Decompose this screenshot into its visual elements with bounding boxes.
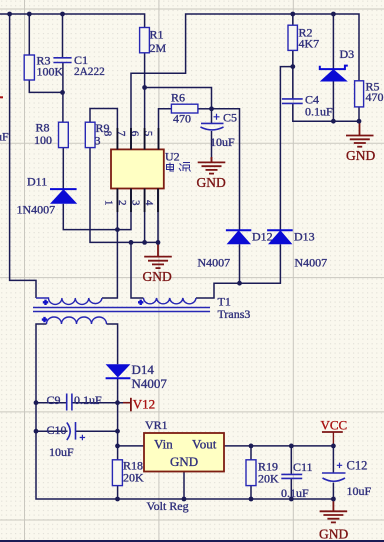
svg-text:R6: R6: [171, 91, 185, 105]
svg-text:GND: GND: [319, 527, 348, 542]
svg-text:100K: 100K: [37, 65, 64, 79]
label R2: [299, 26, 320, 51]
svg-text:D12: D12: [252, 230, 273, 244]
svg-text:10uF: 10uF: [347, 484, 372, 498]
svg-text:1: 1: [103, 200, 115, 206]
wire R19 bottom lead: [250, 486, 252, 499]
capacitor C10: [67, 422, 85, 440]
svg-text:D14: D14: [132, 362, 155, 377]
label D14: [132, 362, 168, 391]
label D12: [252, 230, 273, 244]
diode D11: [50, 189, 77, 204]
label uF fragment left edge: [0, 130, 9, 144]
svg-text:10uF: 10uF: [49, 445, 74, 459]
label VR1: [145, 418, 168, 432]
wire C12 top stem: [332, 446, 334, 473]
capacitor C1: [53, 58, 71, 63]
label U2: [165, 150, 180, 164]
wire left bus: [10, 14, 36, 298]
svg-text:1N4007: 1N4007: [17, 203, 56, 217]
label R18: [123, 459, 144, 485]
wire C9 right to V12: [72, 402, 131, 404]
svg-text:10uF: 10uF: [210, 135, 235, 149]
label R6: [171, 91, 191, 126]
capacitor C11: [281, 474, 302, 478]
capacitor C5: [201, 114, 224, 130]
resistor R18: [112, 460, 122, 486]
svg-text:Vin: Vin: [154, 437, 173, 452]
pin 3: [130, 200, 142, 206]
label T1: [218, 295, 251, 322]
svg-text:4K7: 4K7: [299, 37, 320, 51]
ic U2: [111, 149, 164, 188]
ground bottom C12: [320, 499, 348, 522]
transformer T1 primary left winding: [36, 298, 102, 305]
wire C12 bottom stem: [332, 483, 334, 500]
power port V12: [123, 397, 155, 412]
svg-text:Vout: Vout: [192, 437, 217, 452]
ground C5: [198, 157, 226, 174]
resistor R8: [59, 122, 69, 147]
svg-text:C12: C12: [347, 459, 368, 473]
svg-text:D11: D11: [27, 175, 47, 189]
wire C5 bottom stem: [211, 131, 213, 162]
wire C10 left: [36, 430, 68, 432]
wire R2 top lead: [292, 14, 294, 25]
wire R1 bottom to pin6: [144, 53, 146, 150]
wire D3 anode lead: [332, 82, 334, 122]
wire Vin: [118, 445, 144, 447]
svg-text:N4007: N4007: [132, 376, 168, 391]
wire R3 bottom to C1 node: [29, 80, 62, 92]
wire pin1 to primary winding: [102, 189, 117, 299]
wire R2 bottom to C4: [292, 50, 294, 99]
wire C11 bottom stem: [290, 478, 292, 499]
ground label bottom: [319, 527, 348, 542]
wire VR1 gnd pin: [183, 472, 185, 500]
pin 5: [142, 131, 154, 137]
wire R9 bottom to pins 3,4 gnd: [90, 148, 158, 243]
svg-text:Volt Reg: Volt Reg: [147, 499, 189, 513]
zener diode D3: [320, 66, 348, 82]
svg-text:20K: 20K: [258, 472, 279, 486]
resistor R5: [355, 81, 364, 107]
svg-text:2M: 2M: [150, 41, 167, 55]
svg-text:VR1: VR1: [145, 418, 168, 432]
pin 6: [129, 131, 141, 137]
label C11: [281, 460, 313, 500]
resistor R9: [85, 122, 95, 147]
pin 7: [115, 131, 127, 137]
wire node to D12 cathode: [212, 109, 240, 230]
label C1: [74, 53, 105, 78]
wire C11 top stem: [290, 446, 292, 475]
label 1N4007 D11: [17, 203, 56, 217]
label Volt Reg: [147, 499, 189, 513]
wire R8 to D11: [62, 148, 64, 190]
label R1: [150, 28, 167, 56]
svg-text:R1: R1: [150, 28, 164, 42]
pin 8: [101, 131, 113, 137]
wire pin6 node to R6 node: [145, 88, 212, 109]
wire R9 top to pin8: [90, 109, 117, 150]
wire pin7 to top right bus: [131, 14, 359, 149]
wire D3 cathode lead: [332, 14, 334, 69]
svg-text:C10: C10: [47, 423, 67, 437]
wire D11 anode to pins 1,2: [63, 189, 131, 230]
label D3: [340, 47, 355, 61]
label C9: [47, 393, 103, 407]
wire top bus left: [0, 14, 145, 28]
svg-text:0.1uF: 0.1uF: [74, 393, 102, 407]
svg-text:0.1uF: 0.1uF: [281, 486, 309, 500]
wire C1 top lead: [62, 14, 64, 58]
svg-text:N4007: N4007: [198, 256, 231, 270]
label R5: [366, 80, 384, 105]
svg-text:GND: GND: [170, 454, 198, 469]
wire C10 right: [76, 430, 118, 432]
wire D14 cathode down to R18: [117, 378, 119, 460]
resistor R3: [24, 55, 34, 80]
wire R19 top lead: [250, 446, 252, 460]
label D11: [27, 175, 47, 189]
pin 4: [143, 200, 155, 206]
transformer T1 core: [33, 308, 210, 312]
resistor R6: [171, 104, 198, 113]
svg-text:GND: GND: [346, 148, 375, 163]
wire pin3 lead: [144, 189, 146, 243]
capacitor C9: [67, 394, 72, 411]
diode D12: [226, 230, 251, 244]
svg-text:D13: D13: [294, 230, 315, 244]
label C12: [347, 459, 372, 499]
pin 1: [103, 200, 115, 206]
wire R18 bottom lead: [117, 486, 119, 499]
capacitor C4: [282, 99, 303, 104]
wire R3 top lead: [28, 14, 30, 55]
sheet bottom edge line: [0, 540, 384, 542]
svg-text:Trans3: Trans3: [218, 307, 251, 321]
svg-text:C11: C11: [293, 460, 313, 474]
resistor R19: [246, 460, 256, 486]
label D13: [294, 230, 315, 244]
svg-text:470: 470: [366, 90, 384, 104]
svg-text:N4007: N4007: [295, 256, 328, 270]
transformer T1 primary right winding: [138, 298, 196, 305]
wire Vout to VCC: [224, 445, 333, 447]
ground top right: [346, 121, 374, 147]
svg-text:D3: D3: [340, 47, 355, 61]
svg-text:C1: C1: [74, 53, 88, 67]
pin 2: [116, 200, 128, 206]
wire R6 left lead to pin5: [159, 109, 172, 150]
svg-text:5: 5: [142, 131, 154, 137]
resistor R2: [288, 25, 297, 50]
svg-text:VCC: VCC: [321, 418, 348, 433]
ground mid under U2: [144, 242, 172, 268]
wire secondary right to D14: [107, 324, 118, 364]
label R9: [95, 121, 110, 148]
label R19: [258, 460, 279, 486]
diode D14: [106, 364, 131, 378]
resistor R1: [140, 28, 150, 53]
capacitor C12: [322, 463, 346, 482]
svg-text:C9: C9: [47, 393, 61, 407]
regulator VR1: [144, 433, 224, 472]
svg-text:GND: GND: [197, 175, 226, 190]
svg-text:2A222: 2A222: [74, 66, 105, 78]
svg-text:0.1uF: 0.1uF: [305, 105, 333, 119]
svg-text:V12: V12: [133, 397, 155, 412]
wire C5 top stem: [211, 109, 213, 124]
svg-text:3: 3: [95, 134, 101, 148]
wire C9 left: [36, 402, 67, 404]
ground label C5: [197, 175, 226, 190]
svg-text:0.1uF: 0.1uF: [0, 130, 9, 144]
label C4: [305, 93, 333, 119]
wire secondary left rail down: [36, 324, 333, 499]
ground label top right: [346, 148, 375, 163]
wire R6 right lead: [198, 108, 212, 110]
wire node to D13 cathode: [280, 67, 292, 231]
svg-text:GND: GND: [143, 269, 172, 284]
wire pin4 lead: [157, 189, 159, 243]
label C5: [210, 111, 237, 150]
ground label mid: [143, 269, 172, 284]
label C10: [47, 423, 75, 459]
svg-text:U2: U2: [165, 150, 180, 164]
label U2 chinese: [167, 163, 191, 172]
label R3: [37, 54, 64, 79]
red fragment left edge: [0, 96, 3, 98]
wire D12 anode lead: [239, 244, 241, 283]
diode D13: [267, 230, 293, 244]
wire D13 bottom to D12 to winding: [196, 244, 280, 298]
wire C1 bottom to R8: [62, 63, 64, 123]
wire R5 bottom lead: [358, 107, 360, 121]
svg-text:100: 100: [34, 133, 52, 147]
svg-text:20K: 20K: [123, 471, 144, 485]
label N4007 D12: [198, 256, 231, 270]
wire drop to right primary winding: [131, 242, 143, 298]
svg-text:C5: C5: [223, 111, 237, 125]
svg-text:470: 470: [173, 112, 191, 126]
ic U2 pin stubs: [117, 128, 158, 212]
wire C4 bottom rail: [293, 103, 359, 121]
power port VCC: [321, 418, 348, 446]
transformer T1 secondary winding: [42, 317, 107, 324]
label R8: [34, 121, 52, 148]
label N4007 D13: [295, 256, 328, 270]
